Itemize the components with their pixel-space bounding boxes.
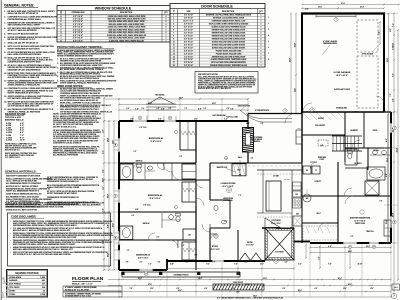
svg-text:6’-0” X 4’-0”: 6’-0” X 4’-0”: [73, 15, 83, 18]
svg-text:1: 1: [261, 24, 262, 26]
dim left string 3: [113, 121, 115, 270]
svg-text:S: S: [225, 158, 226, 160]
svg-text:DESCRIPTION: DESCRIPTION: [222, 11, 235, 13]
witness lines bottom: [118, 271, 120, 297]
svg-text:ALL HEADERS TO BE 2-2X10 UNLES: ALL HEADERS TO BE 2-2X10 UNLESS: [6, 195, 40, 198]
right exterior wall: [390, 112, 392, 243]
svg-text:2’-8” X 6’-8”: 2’-8” X 6’-8”: [184, 29, 193, 31]
powder room: [210, 199, 230, 201]
bath partition: [367, 148, 369, 170]
window W10 right wall: [390, 123, 393, 133]
svg-text:3050 SGL HUNG VINYL LOW-E WDW: 3050 SGL HUNG VINYL LOW-E WDW TEMP.: [108, 24, 145, 26]
svg-text:2-CAR GARAGE: 2-CAR GARAGE: [334, 71, 351, 74]
svg-text:7'-0”: 7'-0”: [230, 108, 234, 110]
bath3 south wall: [119, 239, 196, 241]
svg-text:7'-2”: 7'-2”: [392, 23, 394, 26]
svg-text:COV. ENTRY: COV. ENTRY: [315, 125, 326, 127]
master window seat: [384, 220, 391, 236]
front entry door: [285, 114, 295, 124]
svg-text:6'-0”: 6'-0”: [130, 119, 133, 121]
svg-text:3'-8”: 3'-8”: [285, 262, 288, 264]
svg-text:KITCHEN: KITCHEN: [272, 220, 281, 222]
svg-text:4-2050 SGL HUNG VINYL WDWS MUL: 4-2050 SGL HUNG VINYL WDWS MULLED: [109, 39, 144, 42]
svg-text:–: –: [57, 112, 58, 114]
svg-text:7'-0”: 7'-0”: [257, 288, 260, 290]
left wing bottom wall: [119, 269, 167, 271]
svg-text:2'-8”: 2'-8”: [126, 262, 129, 264]
svg-text:2’-8” X 6’-8”: 2’-8” X 6’-8”: [184, 50, 193, 52]
window W8 master bottom: [343, 242, 357, 245]
svg-text:117: 117: [42, 284, 45, 286]
dim entry vertical 2: [295, 14, 297, 114]
svg-text:11'-2”: 11'-2”: [194, 119, 198, 121]
svg-text:O/ HOUSE WRAP O/ 7/16” O.S.B.: O/ HOUSE WRAP O/ 7/16” O.S.B.: [65, 294, 92, 297]
door schedule table: [170, 4, 265, 68]
svg-text:NOTIFY DESIGNER OF ANY DISCR: NOTIFY DESIGNER OF ANY DISCR: [8, 91, 41, 94]
svg-text:1: 1: [261, 56, 262, 58]
svg-text:3030 SGL HUNG VINYL INSUL LOW-: 3030 SGL HUNG VINYL INSUL LOW-E WDW: [108, 29, 145, 31]
porch ticks: [122, 279, 124, 281]
svg-text:6'-8”: 6'-8”: [386, 173, 388, 177]
garage door opening top: [316, 15, 356, 17]
svg-text:11'-0” X 11'-8”: 11'-0” X 11'-8”: [150, 141, 161, 143]
water heater: [303, 194, 311, 202]
bath2 vanity: [144, 164, 146, 179]
kitchen sink: [293, 182, 302, 190]
dim bottom string 3: [119, 291, 391, 293]
svg-text:26'-8”: 26'-8”: [178, 290, 182, 292]
svg-text:2: 2: [166, 38, 167, 40]
svg-text:11'-2”: 11'-2”: [150, 288, 154, 290]
svg-text:W: W: [306, 170, 308, 172]
linen closet 2: [183, 229, 196, 240]
wic east wall: [337, 162, 339, 243]
svg-text:21'-8”: 21'-8”: [294, 43, 296, 47]
svg-text:10'-2”: 10'-2”: [390, 28, 392, 32]
svg-text:DESCRIPTION: DESCRIPTION: [120, 12, 133, 14]
svg-text:3'-0”: 3'-0”: [127, 250, 130, 252]
svg-text:7'-2”: 7'-2”: [148, 264, 151, 266]
svg-text:11'-8”: 11'-8”: [112, 140, 114, 144]
hall arrows: [239, 160, 241, 176]
window bed4 left: [118, 250, 121, 260]
svg-text:SHALL BE 2X4 SPF STUDS AT 16: SHALL BE 2X4 SPF STUDS AT 16: [8, 42, 39, 45]
left string extra ticks: [103, 120, 105, 122]
svg-text:2-3050 SGL HUNG VINYL INSUL LO: 2-3050 SGL HUNG VINYL INSUL LOW-E WDW: [108, 16, 146, 18]
dim left string 2: [108, 121, 110, 270]
door wic: [318, 223, 326, 231]
svg-text:33'-2”: 33'-2”: [289, 58, 291, 62]
bed2 door arc: [196, 198, 204, 206]
svg-text:ENTRY: ENTRY: [318, 118, 325, 120]
attic access entry: [318, 140, 328, 146]
hall east wall: [210, 162, 302, 164]
svg-text:WH: WH: [306, 198, 309, 200]
svg-text:9’-0” CLG.: 9’-0” CLG.: [143, 205, 151, 207]
wic shelves dashed: [303, 225, 337, 227]
svg-text:CODE IN EACH BEDROOM AND HALL: CODE IN EACH BEDROOM AND HALL AR: [6, 193, 42, 196]
wic partition: [302, 222, 338, 224]
svg-text:LIVING ROOM: LIVING ROOM: [221, 183, 236, 185]
window W7 bottom study: [212, 260, 224, 263]
svg-text:11'-6”: 11'-6”: [294, 88, 296, 92]
garage left wall: [301, 14, 303, 114]
svg-text:STOR.: STOR.: [373, 130, 378, 132]
sheet left edge line: [0, 0, 2, 300]
svg-text:AND NOTIFY DESIGNER OF ANY DIS: AND NOTIFY DESIGNER OF ANY DISCR: [6, 175, 41, 178]
master shower: [365, 181, 379, 195]
svg-text:12: 12: [173, 47, 175, 49]
door bed2: [172, 171, 181, 180]
svg-text:GENERAL MATERIALS:: GENERAL MATERIALS:: [5, 170, 37, 174]
svg-text:16: 16: [173, 59, 175, 61]
svg-text:6'-2”: 6'-2”: [225, 221, 228, 223]
svg-text:NOTIFY DESIGNER OF ANY DISCR: NOTIFY DESIGNER OF ANY DISCR: [8, 47, 41, 50]
svg-text:POCKET DOOR, HOLLOW CORE: POCKET DOOR, HOLLOW CORE: [216, 50, 243, 52]
smoke detector bed2: [175, 206, 178, 209]
dim right string 1: [388, 14, 390, 244]
left wing top wall: [119, 120, 248, 122]
svg-text:CODE DISCLAIMER:: CODE DISCLAIMER:: [11, 215, 36, 219]
svg-text:BEDROOM #2: BEDROOM #2: [148, 195, 163, 197]
svg-text:2: 2: [261, 44, 262, 46]
svg-text:2: 2: [261, 35, 262, 37]
svg-text:AND CONTRACTOR SHALL VERIFY: AND CONTRACTOR SHALL VERIFY: [8, 23, 42, 26]
svg-text:TOTAL: TOTAL: [9, 293, 16, 296]
svg-text:STUDY: STUDY: [212, 246, 219, 248]
svg-text:2X4 SPF STUDS AT 16 O.C.: 2X4 SPF STUDS AT 16 O.C.: [53, 125, 77, 128]
stamp circle: [391, 293, 396, 298]
dim right string 3: [397, 30, 399, 280]
legend box 1: [63, 286, 122, 291]
legend box 2: [63, 292, 122, 297]
svg-text:LIVING AREA: LIVING AREA: [9, 276, 22, 279]
svg-text:11: 11: [173, 44, 175, 46]
wall left wing east: [195, 121, 197, 163]
garage dashed storage line: [357, 20, 378, 52]
svg-text:8’-0” X 5’-0”: 8’-0” X 5’-0”: [73, 40, 83, 42]
bottom strings right ticks: [317, 279, 319, 281]
svg-text:ALL PARALLEL PARTITIONS: ALL PARALLEL PARTITIONS: [53, 154, 79, 157]
svg-text:6’-0” X 6’-8”: 6’-0” X 6’-8”: [184, 47, 193, 49]
linen closet: [182, 164, 196, 179]
bath3 tub: [120, 226, 133, 240]
svg-text:1: 1: [261, 65, 262, 67]
svg-text:20'-0” X 21'-8”: 20'-0” X 21'-8”: [336, 75, 347, 77]
roof detail sketch: [146, 103, 176, 105]
svg-text:1: 1: [261, 59, 262, 61]
dim top-left wing 1: [104, 98, 248, 100]
svg-text:AT 48 O.C. MAX ALL EXTERIOR: AT 48 O.C. MAX ALL EXTERIOR: [8, 29, 38, 32]
svg-text:CONFORM TO LOCAL CODES A: CONFORM TO LOCAL CODES A: [53, 141, 82, 144]
witness lines top wing: [118, 99, 120, 120]
porch gable triangles: [240, 253, 251, 261]
entry front wall: [248, 113, 302, 115]
main bottom wall: [167, 260, 265, 262]
svg-text:441: 441: [42, 279, 45, 282]
svg-text:LIVING ROOM: LIVING ROOM: [223, 198, 233, 200]
bath vanity counter: [370, 154, 391, 156]
svg-text:3: 3: [261, 32, 262, 34]
svg-text:W/ TIES @ 16” O.C. EA. STUD: W/ TIES @ 16” O.C. EA. STUD: [65, 288, 90, 291]
dim top-left wing 2: [119, 104, 248, 106]
svg-text:2’-0” X 6’-8”: 2’-0” X 6’-8”: [184, 38, 193, 40]
svg-text:QTY.: QTY.: [259, 11, 263, 13]
svg-text:5: 5: [173, 26, 174, 28]
master bottom wall: [310, 242, 391, 244]
svg-text:UTILITY: UTILITY: [315, 181, 323, 183]
kitchen island: [266, 181, 281, 211]
svg-text:9'-8”: 9'-8”: [283, 288, 286, 290]
wall hall south: [119, 179, 210, 181]
svg-text:2’-8” X 5’-0”: 2’-8” X 5’-0”: [73, 32, 83, 34]
window W4 left wall: [118, 189, 121, 203]
svg-text:3: 3: [166, 24, 167, 26]
svg-text:7'-6”: 7'-6”: [102, 208, 104, 211]
svg-text:12'-0”: 12'-0”: [318, 7, 322, 9]
svg-text:E: E: [349, 246, 350, 248]
svg-text:1: 1: [261, 26, 262, 28]
svg-text:3’-0” X 6’-8”: 3’-0” X 6’-8”: [184, 15, 193, 17]
window W2 top wall: [164, 120, 176, 123]
entry hall west wall: [301, 112, 303, 162]
svg-text:3'-2”: 3'-2”: [134, 151, 137, 153]
svg-text:–: –: [57, 105, 58, 107]
svg-text:–: –: [57, 89, 58, 91]
door master: [345, 196, 353, 204]
svg-text:2: 2: [173, 18, 174, 20]
svg-text:5’-0” X 6’-8”: 5’-0” X 6’-8”: [184, 44, 193, 46]
code disclaimer box: [8, 213, 111, 266]
svg-text:9'-8”: 9'-8”: [390, 173, 392, 176]
svg-text:PROTECTION AGAINST TERMITES:: PROTECTION AGAINST TERMITES:: [57, 45, 103, 49]
svg-text:2’-8” X 6’-8”: 2’-8” X 6’-8”: [184, 18, 193, 20]
svg-text:2: 2: [166, 32, 167, 34]
bed4 closet: [182, 242, 196, 260]
wing window dim ticks left: [115, 139, 120, 141]
kitchen angled counter: [265, 218, 281, 228]
svg-text:10'-6”: 10'-6”: [343, 288, 347, 290]
door garage to house: [303, 103, 312, 112]
svg-text:–: –: [57, 95, 58, 97]
svg-text:ORDINANCES PROVIDE DOUBLE JO: ORDINANCES PROVIDE DOUBLE JO: [47, 196, 79, 199]
svg-text:2030 SGL HUNG VINYL INSUL OBSC: 2030 SGL HUNG VINYL INSUL OBSC. WDW: [109, 21, 145, 23]
svg-text:BEARING WALLS:: BEARING WALLS:: [5, 119, 24, 122]
kitchen dw: [293, 191, 302, 197]
svg-text:2: 2: [261, 41, 262, 43]
svg-text:8'-0”: 8'-0”: [328, 264, 331, 266]
svg-text:1: 1: [173, 15, 174, 17]
stair walls: [332, 135, 362, 137]
svg-text:ALL EXTERIOR WALLS SHALL BE: ALL EXTERIOR WALLS SHALL BE: [8, 76, 40, 79]
utility door arc: [344, 188, 352, 196]
porch column 2: [159, 272, 162, 275]
svg-text:1: 1: [166, 40, 167, 42]
svg-text:HALL AREA PROVIDE ANCHOR BOL: HALL AREA PROVIDE ANCHOR BOL: [8, 53, 43, 56]
svg-text:10'-0” X 11'-0”: 10'-0” X 11'-0”: [210, 249, 220, 251]
bottom right dims under master: [310, 247, 391, 249]
dim drop master 2: [349, 246, 351, 268]
svg-text:65'-0”: 65'-0”: [396, 148, 398, 152]
porch column 4: [237, 272, 240, 275]
hatched bar: [213, 284, 264, 290]
svg-text:BOLTS AT 48 O.C. MAX ALL EXTER: BOLTS AT 48 O.C. MAX ALL EXTERIOR WALLS …: [13, 229, 71, 232]
svg-text:6: 6: [166, 18, 167, 20]
svg-text:5'-2”: 5'-2”: [351, 236, 354, 238]
svg-text:2-2X12: 2-2X12: [6, 132, 12, 134]
svg-text:5'-0”: 5'-0”: [180, 156, 183, 158]
svg-text:120: 120: [42, 287, 45, 289]
svg-text:1: 1: [261, 62, 262, 64]
dim left string 1: [103, 98, 105, 270]
svg-text:TO EXT.: TO EXT.: [320, 159, 326, 161]
wall bed3 south: [119, 162, 196, 164]
svg-text:7'-0”: 7'-0”: [378, 31, 380, 35]
bath sink 2: [381, 151, 386, 155]
door bath2: [133, 163, 140, 170]
svg-text:5'-8”: 5'-8”: [234, 264, 237, 266]
window drop ticks top wall: [132, 116, 134, 122]
utility wall: [301, 162, 303, 243]
svg-text:1/2 GYP BD EACH SIDE AND CON: 1/2 GYP BD EACH SIDE AND CON: [8, 105, 40, 108]
svg-text:13'-6” X 16'-0”: 13'-6” X 16'-0”: [354, 220, 365, 222]
window W5 left wall: [118, 231, 121, 245]
window labels circles: [138, 116, 142, 120]
svg-text:DISCREPANCIES ALL WORK SHALL C: DISCREPANCIES ALL WORK SHALL CONFORM TO …: [13, 224, 77, 227]
window W3 left wall: [118, 138, 121, 152]
svg-text:10: 10: [173, 41, 175, 43]
master closet chevrons: [306, 227, 309, 233]
svg-text:1’-6” X 6’-8”: 1’-6” X 6’-8”: [184, 56, 193, 58]
svg-text:3'-0”: 3'-0”: [380, 201, 383, 203]
svg-text:26'-0”: 26'-0”: [392, 213, 394, 217]
study door arc: [210, 234, 217, 241]
svg-text:MASTER BEDROOM: MASTER BEDROOM: [350, 217, 370, 220]
svg-text:17: 17: [0, 290, 11, 300]
entry tile hatch: [303, 113, 310, 120]
smoke detector bed3: [175, 131, 178, 134]
svg-text:5'-0”: 5'-0”: [186, 262, 189, 264]
svg-text:4: 4: [166, 15, 167, 18]
dim top garage: [302, 4, 384, 6]
svg-text:W.I.C.: W.I.C.: [317, 213, 322, 215]
hall bath door arcs: [157, 163, 164, 170]
svg-text:13'-6”: 13'-6”: [112, 223, 114, 227]
wc room: [345, 149, 357, 165]
svg-text:6’-0” X 6’-8”: 6’-0” X 6’-8”: [184, 26, 193, 28]
svg-text:13: 13: [173, 50, 175, 52]
svg-text:6: 6: [173, 29, 174, 31]
porch band: [122, 271, 240, 273]
svg-text:18: 18: [173, 65, 175, 67]
ceiling fan master: [360, 210, 364, 214]
svg-text:12'-2”: 12'-2”: [370, 288, 374, 290]
svg-text:5'-8”: 5'-8”: [355, 112, 358, 114]
dim bottom string 1: [108, 279, 391, 281]
svg-text:J: J: [61, 38, 62, 40]
bath2 tub: [120, 164, 133, 180]
dim top right corner: [384, 4, 399, 6]
porch column 1: [121, 272, 124, 275]
window schedule table: [57, 5, 170, 42]
svg-text:STUDS AT 16 O.C. WITH 1/2 GYP: STUDS AT 16 O.C. WITH 1/2 GYP BD: [6, 209, 38, 212]
svg-text:5'-0”: 5'-0”: [204, 108, 207, 110]
garage right inner ticks: [393, 13, 395, 15]
dim drop master 1: [319, 246, 321, 268]
svg-text:BOLTS AT 48 O.C.: BOLTS AT 48 O.C.: [5, 148, 21, 151]
bed2 closet: [182, 182, 196, 202]
svg-text:2’-8” X 6’-8”: 2’-8” X 6’-8”: [184, 59, 193, 61]
laundry partition: [363, 112, 365, 148]
window W6 bottom bed2: [139, 269, 153, 272]
kitchen counter west: [262, 170, 264, 213]
smoke detector hall: [225, 157, 228, 160]
svg-text:CODES AND ORDINANCES PROVIDE D: CODES AND ORDINANCES PROVIDE DOUBLE JO: [60, 113, 102, 116]
svg-text:5'-2”: 5'-2”: [157, 237, 160, 239]
closet chevrons bed3: [187, 121, 189, 150]
dim right string 2: [393, 14, 395, 297]
svg-text:FIBERMESH REINF.: FIBERMESH REINF.: [323, 43, 338, 45]
svg-text:3’-0” X 5’-0”: 3’-0” X 5’-0”: [73, 18, 83, 20]
svg-text:3040 SGL HUNG VINYL INSUL LOW-: 3040 SGL HUNG VINYL INSUL LOW-E WDW: [108, 37, 145, 40]
hall rooms wall: [302, 134, 345, 136]
svg-text:2’-8” X 6’-8”: 2’-8” X 6’-8”: [184, 62, 193, 64]
ceiling fan living: [226, 187, 231, 192]
svg-text:8'-0”: 8'-0”: [392, 46, 394, 49]
svg-text:3'-0”: 3'-0”: [130, 288, 133, 290]
svg-text:8'-0”: 8'-0”: [107, 224, 109, 228]
interior dim garage right: [379, 22, 381, 44]
svg-text:CONTRACTOR SHALL VERIFY ALL DI: CONTRACTOR SHALL VERIFY ALL DIMENSIONS P…: [5, 206, 64, 209]
square footage table: [7, 270, 48, 298]
svg-text:REF: REF: [296, 214, 299, 216]
svg-text:6'-6”: 6'-6”: [392, 73, 394, 76]
svg-text:AND HALL AREA PROVIDE ANCHOR B: AND HALL AREA PROVIDE ANCHOR BOLTS AT 48…: [13, 248, 74, 251]
svg-text:9’-0” CLG.: 9’-0” CLG.: [139, 127, 147, 129]
bottom step wall: [166, 259, 168, 270]
dim ticks row y268: [167, 268, 294, 270]
svg-text:6'-2”: 6'-2”: [140, 262, 143, 264]
svg-text:8'-6”: 8'-6”: [224, 119, 227, 121]
svg-text:3’-0” X 6’-8”: 3’-0” X 6’-8”: [184, 65, 193, 67]
sliding door to patio: [266, 227, 290, 230]
svg-text:3’-0” X 5’-0”: 3’-0” X 5’-0”: [73, 24, 83, 26]
great room ceiling dashed: [212, 165, 300, 167]
garage dashed lower: [357, 56, 378, 108]
dim bottom string 2: [108, 285, 391, 287]
study nook divider: [237, 230, 239, 261]
svg-text:1: 1: [261, 15, 262, 17]
svg-text:DESIGNER OF ANY DISCREPANCIE: DESIGNER OF ANY DISCREPANCIE: [8, 68, 42, 71]
kitchen counter north wall: [257, 169, 302, 171]
svg-text:9’-6”: 9’-6”: [20, 132, 24, 134]
svg-text:BOLTS AT 48 O.C. MAX ALL EXTER: BOLTS AT 48 O.C. MAX ALL EXTERIO: [6, 185, 39, 188]
svg-text:6'-8”: 6'-8”: [127, 108, 130, 110]
bed2 south wall: [119, 211, 196, 213]
svg-text:POCKET DOOR, HOLLOW CORE: POCKET DOOR, HOLLOW CORE: [216, 53, 243, 55]
svg-text:SQUARE FOOTAGE: SQUARE FOOTAGE: [15, 272, 39, 275]
entry walk curves: [246, 114, 292, 119]
svg-text:18'-8”: 18'-8”: [246, 284, 250, 286]
svg-text:WIND ZONE NOTES:: WIND ZONE NOTES:: [57, 84, 83, 88]
svg-text:6'-0”: 6'-0”: [161, 108, 165, 110]
svg-text:8'-2”: 8'-2”: [386, 138, 388, 142]
bath3 vanity: [161, 213, 163, 228]
pantry cabinet column: [296, 130, 302, 144]
svg-text:9: 9: [173, 38, 174, 40]
svg-text:2: 2: [261, 38, 262, 40]
svg-text:16 O.C. WITH 1/2 GYP BD EACH S: 16 O.C. WITH 1/2 GYP BD EACH SID: [6, 179, 37, 182]
